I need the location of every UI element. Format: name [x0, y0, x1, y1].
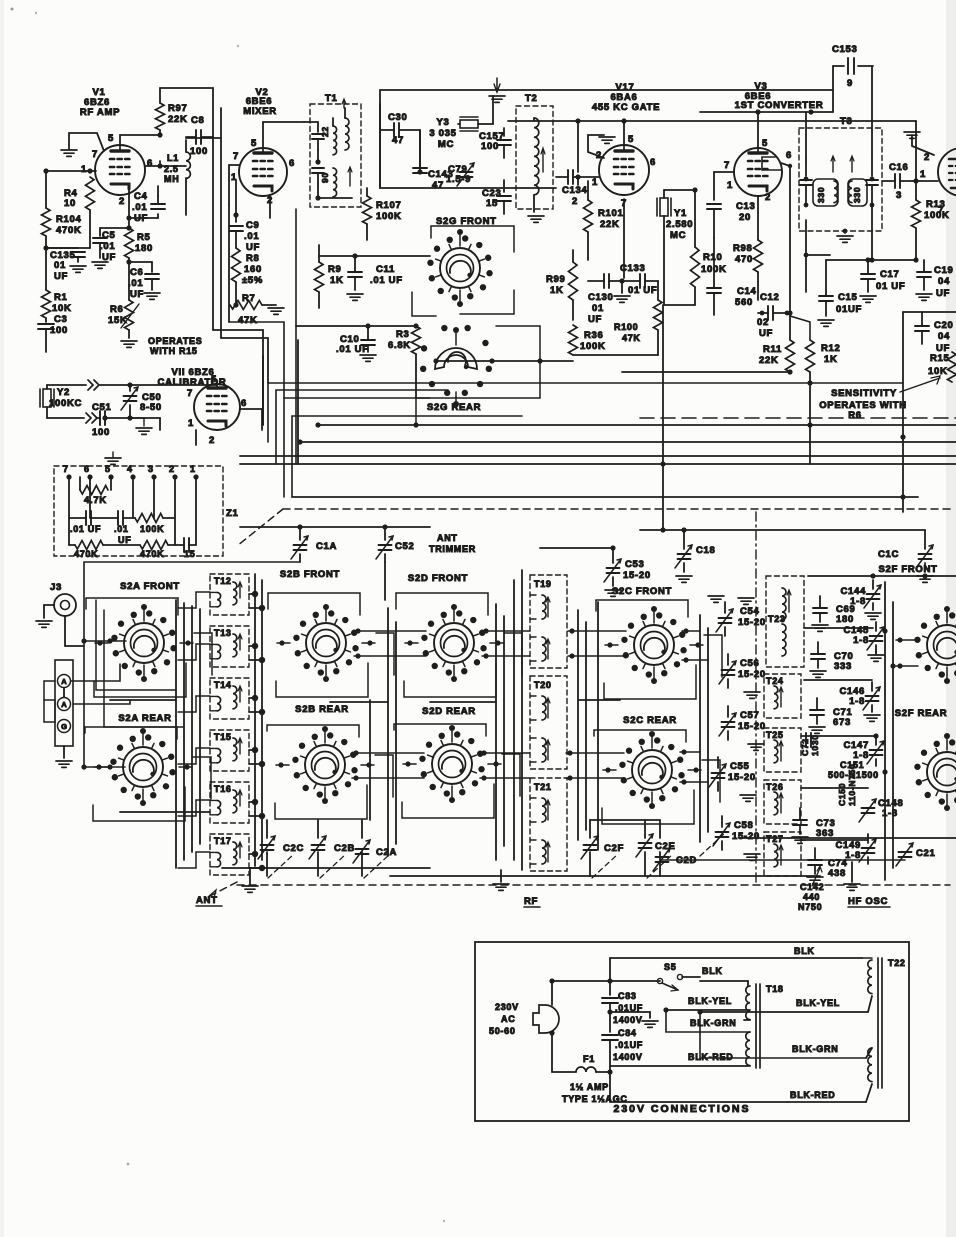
svg-text:Y2: Y2	[57, 387, 70, 398]
svg-text:2.580: 2.580	[666, 219, 693, 230]
svg-text:C134: C134	[562, 185, 588, 196]
svg-text:S2F REAR: S2F REAR	[895, 708, 948, 719]
svg-text:100: 100	[190, 146, 208, 157]
svg-text:100: 100	[50, 325, 68, 336]
svg-text:UF: UF	[118, 535, 131, 545]
svg-text:T20: T20	[534, 680, 552, 690]
svg-text:S2A REAR: S2A REAR	[118, 713, 171, 724]
svg-text:100: 100	[92, 427, 110, 438]
svg-text:6: 6	[289, 158, 295, 169]
svg-text:C58: C58	[734, 820, 754, 831]
svg-text:C30: C30	[388, 112, 408, 123]
svg-text:C20: C20	[934, 320, 954, 331]
svg-text:2: 2	[169, 464, 175, 474]
svg-text:3 035: 3 035	[429, 128, 456, 139]
svg-text:SENSITIVITY: SENSITIVITY	[831, 388, 897, 399]
svg-text:C13: C13	[736, 201, 756, 212]
svg-text:6.8K: 6.8K	[388, 340, 411, 351]
svg-text:330: 330	[816, 187, 826, 203]
svg-text:C14: C14	[737, 286, 757, 297]
svg-text:3: 3	[896, 190, 902, 201]
svg-text:04: 04	[938, 276, 950, 287]
svg-text:333: 333	[834, 661, 852, 672]
svg-text:1-8: 1-8	[882, 808, 898, 819]
svg-text:BLK-RED: BLK-RED	[790, 1090, 835, 1100]
svg-text:BLK-RED: BLK-RED	[688, 1052, 733, 1062]
svg-text:C153: C153	[832, 44, 858, 55]
svg-text:R5: R5	[137, 232, 151, 243]
svg-text:R9: R9	[328, 264, 342, 275]
svg-text:C12: C12	[760, 292, 780, 303]
svg-text:N750: N750	[798, 902, 822, 912]
svg-text:01: 01	[54, 260, 66, 271]
svg-text:T2: T2	[525, 93, 538, 104]
svg-text:22K: 22K	[600, 219, 620, 230]
svg-text:C17: C17	[880, 269, 900, 280]
svg-text:100KC: 100KC	[49, 398, 82, 409]
svg-text:±5%: ±5%	[242, 275, 263, 286]
svg-text:5: 5	[762, 138, 768, 149]
svg-text:15-20: 15-20	[738, 669, 766, 680]
svg-text:2: 2	[765, 192, 771, 203]
svg-text:180: 180	[836, 614, 854, 625]
svg-text:.01: .01	[132, 202, 147, 213]
svg-text:8-50: 8-50	[140, 402, 162, 413]
svg-text:T13: T13	[214, 628, 232, 638]
svg-text:1400V: 1400V	[613, 1052, 643, 1062]
svg-text:T23: T23	[768, 614, 786, 624]
svg-text:AC: AC	[501, 1014, 515, 1024]
svg-text:Z1: Z1	[226, 508, 239, 519]
svg-text:C51: C51	[92, 402, 112, 413]
svg-text:6: 6	[786, 150, 792, 161]
svg-text:ANT: ANT	[437, 533, 458, 543]
svg-text:C2C: C2C	[283, 843, 304, 854]
svg-text:C2F: C2F	[604, 843, 624, 854]
svg-text:1: 1	[81, 164, 87, 175]
svg-text:T15: T15	[214, 732, 232, 742]
svg-text:15-20: 15-20	[623, 570, 651, 581]
svg-text:C5: C5	[102, 230, 116, 241]
svg-text:9: 9	[847, 78, 853, 89]
svg-text:1K: 1K	[330, 275, 344, 286]
svg-text:330: 330	[852, 187, 862, 203]
svg-text:47: 47	[392, 135, 404, 146]
svg-text:470: 470	[735, 254, 753, 265]
svg-text:6: 6	[147, 158, 153, 169]
svg-text:BLK: BLK	[702, 966, 723, 976]
svg-text:R8: R8	[246, 253, 260, 264]
svg-text:C130: C130	[588, 292, 614, 303]
svg-text:S2A FRONT: S2A FRONT	[120, 581, 180, 592]
svg-text:C4: C4	[134, 191, 148, 202]
svg-text:T24: T24	[766, 676, 784, 686]
svg-text:G: G	[61, 722, 67, 731]
svg-text:7: 7	[63, 464, 69, 474]
svg-text:455 KC GATE: 455 KC GATE	[592, 102, 660, 113]
svg-text:4: 4	[127, 464, 133, 474]
svg-text:T22: T22	[888, 958, 906, 968]
svg-text:BLK-YEL: BLK-YEL	[688, 996, 732, 1006]
svg-text:7: 7	[187, 388, 193, 399]
svg-text:C6: C6	[130, 267, 144, 278]
svg-text:C52: C52	[395, 541, 415, 552]
svg-text:F1: F1	[583, 1054, 595, 1064]
svg-text:R6: R6	[848, 410, 862, 421]
svg-text:RF: RF	[524, 896, 538, 907]
svg-text:Y3: Y3	[436, 117, 449, 128]
svg-text:R7: R7	[242, 293, 256, 304]
svg-text:.01: .01	[128, 278, 143, 289]
svg-text:S2C REAR: S2C REAR	[623, 715, 677, 726]
svg-text:MC: MC	[438, 139, 454, 150]
svg-text:01 UF: 01 UF	[628, 285, 657, 296]
svg-text:2: 2	[209, 435, 215, 446]
svg-text:470K: 470K	[140, 549, 164, 559]
svg-text:T19: T19	[534, 579, 552, 589]
svg-text:UF: UF	[936, 288, 950, 299]
svg-text:7: 7	[938, 205, 944, 216]
svg-text:7: 7	[233, 151, 239, 162]
svg-text:R12: R12	[821, 343, 841, 354]
svg-text:15-20: 15-20	[738, 721, 766, 732]
svg-text:1-8: 1-8	[853, 635, 869, 646]
svg-text:C2E: C2E	[655, 841, 676, 852]
svg-text:RF AMP: RF AMP	[80, 107, 120, 118]
svg-text:15: 15	[184, 549, 195, 559]
svg-text:S5: S5	[664, 962, 676, 972]
svg-text:A: A	[61, 677, 67, 686]
svg-text:Y1: Y1	[674, 208, 687, 219]
svg-text:UF: UF	[102, 252, 116, 263]
svg-text:R10: R10	[703, 252, 723, 263]
svg-text:22K: 22K	[759, 355, 779, 366]
svg-text:6: 6	[241, 398, 247, 409]
svg-text:3: 3	[148, 464, 154, 474]
svg-text:.01: .01	[114, 524, 129, 534]
svg-text:5: 5	[105, 464, 111, 474]
svg-text:S2C FRONT: S2C FRONT	[612, 586, 672, 597]
svg-text:1K: 1K	[824, 354, 838, 365]
svg-text:1-8: 1-8	[850, 596, 866, 607]
svg-text:UF: UF	[246, 242, 260, 253]
svg-text:T26: T26	[766, 782, 784, 792]
svg-text:470K: 470K	[56, 225, 82, 236]
svg-text:47: 47	[432, 180, 444, 191]
svg-text:180: 180	[135, 243, 153, 254]
svg-text:J3: J3	[50, 582, 62, 593]
svg-text:R6: R6	[110, 304, 124, 315]
svg-text:MC: MC	[670, 230, 686, 241]
svg-text:C133: C133	[620, 263, 646, 274]
svg-text:S2F FRONT: S2F FRONT	[878, 564, 937, 575]
svg-text:.01: .01	[100, 241, 115, 252]
svg-text:C2B: C2B	[334, 843, 355, 854]
svg-text:1: 1	[188, 418, 194, 429]
svg-text:5: 5	[628, 134, 634, 145]
svg-text:230V CONNECTIONS: 230V CONNECTIONS	[613, 1103, 750, 1115]
svg-text:01 UF: 01 UF	[876, 281, 905, 292]
svg-text:R97: R97	[168, 103, 188, 114]
svg-text:C9: C9	[246, 220, 260, 231]
svg-text:C72: C72	[800, 738, 810, 756]
svg-text:R100: R100	[614, 322, 638, 332]
svg-text:C1C: C1C	[878, 549, 899, 560]
svg-text:1K: 1K	[550, 285, 564, 296]
svg-text:6: 6	[84, 464, 90, 474]
svg-text:C142: C142	[800, 882, 824, 892]
svg-text:2: 2	[119, 196, 125, 207]
svg-text:C3: C3	[54, 314, 68, 325]
svg-text:230V: 230V	[495, 1002, 519, 1012]
svg-text:C53: C53	[625, 559, 645, 570]
svg-text:1ST CONVERTER: 1ST CONVERTER	[735, 100, 824, 111]
svg-text:MH: MH	[164, 174, 179, 184]
svg-text:R15: R15	[930, 353, 950, 364]
svg-text:UF: UF	[54, 271, 68, 282]
svg-text:T16: T16	[214, 784, 232, 794]
svg-text:100K: 100K	[140, 524, 164, 534]
svg-text:50-60: 50-60	[489, 1026, 516, 1036]
svg-text:C1A: C1A	[316, 541, 337, 552]
svg-text:7: 7	[92, 149, 98, 160]
svg-text:01: 01	[592, 303, 604, 314]
svg-text:C150: C150	[837, 783, 847, 806]
svg-text:OPERATES: OPERATES	[148, 336, 202, 346]
svg-text:R107: R107	[376, 200, 402, 211]
svg-text:5: 5	[108, 133, 114, 144]
svg-text:100K: 100K	[924, 210, 950, 221]
svg-text:47K: 47K	[622, 333, 641, 343]
svg-text:C55: C55	[730, 761, 750, 772]
svg-text:T12: T12	[214, 576, 232, 586]
svg-text:C84: C84	[618, 1028, 637, 1038]
svg-text:2.5: 2.5	[164, 164, 179, 174]
svg-text:T27: T27	[766, 834, 784, 844]
svg-text:R104: R104	[56, 214, 82, 225]
svg-text:5: 5	[251, 138, 257, 149]
svg-text:1: 1	[592, 177, 598, 188]
svg-text:UF: UF	[588, 314, 602, 325]
svg-text:1400V: 1400V	[613, 1015, 643, 1025]
svg-text:02: 02	[757, 317, 769, 328]
svg-text:1-8: 1-8	[849, 696, 865, 707]
svg-text:100: 100	[481, 141, 499, 152]
svg-text:90: 90	[320, 172, 330, 183]
svg-text:MIXER: MIXER	[243, 106, 277, 117]
svg-text:10: 10	[64, 198, 76, 209]
svg-text:.01 UF: .01 UF	[370, 275, 403, 286]
svg-text:R11: R11	[763, 344, 782, 355]
svg-text:S2B FRONT: S2B FRONT	[280, 569, 340, 580]
svg-text:15-20: 15-20	[738, 617, 766, 628]
svg-text:440: 440	[803, 892, 820, 902]
svg-text:.01 UF: .01 UF	[70, 524, 101, 534]
svg-text:S2B REAR: S2B REAR	[295, 704, 349, 715]
svg-text:673: 673	[833, 717, 851, 728]
svg-text:470K: 470K	[74, 549, 98, 559]
svg-text:R3: R3	[396, 329, 410, 340]
svg-text:22K: 22K	[168, 114, 188, 125]
svg-text:BLK-GRN: BLK-GRN	[792, 1044, 838, 1054]
svg-text:C16: C16	[889, 162, 909, 173]
svg-text:5: 5	[211, 374, 217, 385]
svg-text:C18: C18	[696, 545, 716, 556]
svg-text:2: 2	[572, 196, 578, 207]
svg-text:110-N750: 110-N750	[847, 764, 857, 806]
svg-text:S2D REAR: S2D REAR	[422, 706, 476, 717]
svg-text:WITH R15: WITH R15	[150, 346, 198, 356]
svg-text:OPERATES WITH: OPERATES WITH	[819, 400, 907, 411]
svg-text:T25: T25	[766, 730, 784, 740]
svg-text:R101: R101	[598, 208, 624, 219]
svg-text:10K: 10K	[928, 366, 948, 377]
svg-text:C83: C83	[618, 991, 637, 1001]
svg-text:6: 6	[650, 157, 656, 168]
svg-text:C15: C15	[838, 292, 858, 303]
svg-text:1: 1	[190, 464, 196, 474]
svg-text:R99: R99	[546, 274, 566, 285]
svg-text:7: 7	[724, 160, 730, 171]
svg-text:100K: 100K	[580, 341, 606, 352]
svg-text:04: 04	[938, 331, 950, 342]
svg-text:20: 20	[739, 212, 751, 223]
svg-text:HF OSC: HF OSC	[848, 896, 888, 907]
svg-text:UF: UF	[759, 328, 773, 339]
svg-text:R98: R98	[733, 243, 753, 254]
svg-text:1: 1	[727, 180, 733, 191]
svg-text:A: A	[61, 700, 67, 709]
svg-text:R36: R36	[584, 330, 604, 341]
svg-text:L1: L1	[167, 153, 179, 163]
svg-text:4.7K: 4.7K	[84, 495, 107, 506]
svg-text:BLK-YEL: BLK-YEL	[796, 998, 840, 1008]
svg-text:160: 160	[244, 264, 262, 275]
svg-text:C8: C8	[191, 115, 205, 126]
svg-text:1½ AMP: 1½ AMP	[570, 1082, 609, 1092]
svg-text:15: 15	[486, 198, 498, 209]
svg-text:TRIMMER: TRIMMER	[429, 544, 476, 554]
svg-text:T18: T18	[766, 984, 784, 994]
svg-text:10K: 10K	[52, 303, 72, 314]
svg-text:T17: T17	[214, 836, 232, 846]
svg-text:01UF: 01UF	[836, 304, 862, 315]
svg-text:UF: UF	[130, 289, 144, 300]
svg-text:C21: C21	[916, 848, 936, 859]
svg-text:15-20: 15-20	[728, 772, 756, 783]
svg-text:BLK: BLK	[794, 946, 815, 956]
svg-text:C19: C19	[934, 265, 954, 276]
svg-text:T21: T21	[534, 782, 552, 792]
svg-text:S2D FRONT: S2D FRONT	[408, 573, 468, 584]
svg-text:.01UF: .01UF	[615, 1040, 643, 1050]
svg-text:47K: 47K	[238, 315, 258, 326]
svg-text:560: 560	[735, 297, 753, 308]
svg-text:22: 22	[320, 126, 330, 137]
svg-text:T14: T14	[214, 680, 232, 690]
svg-text:.01: .01	[244, 231, 259, 242]
svg-text:1: 1	[920, 169, 926, 180]
svg-text:T1: T1	[325, 93, 338, 104]
svg-text:R1: R1	[54, 292, 68, 303]
svg-text:BLK-GRN: BLK-GRN	[690, 1018, 736, 1028]
svg-text:C11: C11	[376, 264, 395, 275]
svg-text:100K: 100K	[376, 211, 402, 222]
svg-text:T3: T3	[840, 116, 853, 127]
svg-text:438: 438	[828, 868, 846, 879]
